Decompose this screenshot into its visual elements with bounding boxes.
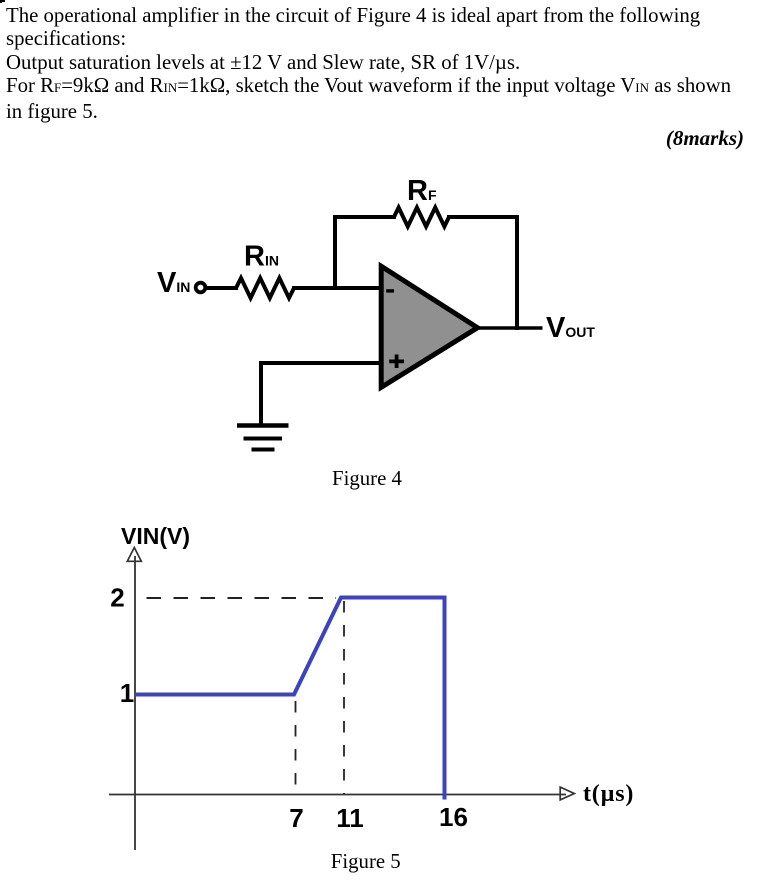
wire RIN to op-amp inverting input xyxy=(292,286,382,290)
graph y-axis arrowhead xyxy=(127,548,141,562)
svg-text:t(µs): t(µs) xyxy=(583,781,634,807)
wire to ground xyxy=(259,361,263,428)
stray mark top-left corner xyxy=(0,0,5,2)
ground xyxy=(237,423,289,428)
wire non-inverting input xyxy=(261,361,381,365)
wire feedback right vertical xyxy=(515,215,519,330)
caption Figure 4 xyxy=(332,469,402,490)
svg-text:16: 16 xyxy=(439,802,468,832)
svg-text:1: 1 xyxy=(120,678,134,708)
node junction feedback/input xyxy=(333,216,337,291)
svg-text:VIN: VIN xyxy=(157,267,190,299)
svg-text:VIN(V): VIN(V) xyxy=(121,523,190,549)
wire feedback top right xyxy=(447,215,519,219)
graph x-axis arrowhead xyxy=(560,787,574,800)
problem statement text xyxy=(6,4,768,123)
wire feedback top left xyxy=(333,215,396,219)
svg-text:7: 7 xyxy=(289,803,303,833)
svg-text:2: 2 xyxy=(110,583,124,613)
svg-text:VOUT: VOUT xyxy=(546,312,595,344)
op-amp minus sign xyxy=(386,289,394,292)
svg-text:11: 11 xyxy=(336,803,364,833)
wire terminal to RIN xyxy=(207,286,239,290)
wire op-amp output xyxy=(476,326,543,330)
graph y-axis xyxy=(134,556,136,850)
op-amp plus sign xyxy=(389,355,404,369)
dashed vertical t=11 xyxy=(343,601,345,794)
terminal VIN xyxy=(196,283,206,293)
resistor RF xyxy=(394,208,449,227)
caption Figure 5 xyxy=(331,852,401,873)
resistor RIN xyxy=(236,278,294,298)
marks label xyxy=(666,126,744,151)
svg-text:RIN: RIN xyxy=(244,241,279,273)
dashed vertical t=7 xyxy=(295,701,297,794)
dashed level-2 horizontal xyxy=(147,597,337,599)
op-amp U1 xyxy=(381,266,477,387)
VIN waveform xyxy=(135,598,445,800)
svg-text:RF: RF xyxy=(407,175,437,207)
graph x-axis xyxy=(109,794,566,796)
